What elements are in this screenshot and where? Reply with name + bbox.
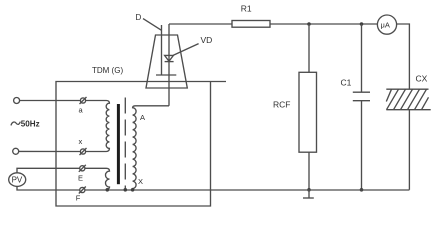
winding: excitation E-F (85, 168, 110, 190)
svg-text:C1: C1 (341, 78, 352, 88)
bushing D (porcelain housing) (146, 35, 187, 88)
node: junction C1 bottom on rail (360, 188, 364, 192)
wire: R1 to microammeter (270, 23, 377, 25)
svg-text:A: A (140, 113, 145, 122)
terminal a (80, 98, 85, 103)
terminal F (80, 187, 85, 192)
wire: RCF top lead (308, 24, 310, 72)
svg-text:TDM (G): TDM (G) (92, 66, 123, 75)
wire: bushing center conductor (168, 24, 170, 106)
capacitor C1 (353, 91, 370, 93)
transformer core (117, 104, 120, 184)
svg-text:PV: PV (12, 175, 23, 184)
diode VD (165, 55, 174, 61)
terminal x (80, 149, 85, 154)
microammeter PA1 (377, 15, 396, 34)
svg-text:CX: CX (416, 74, 428, 84)
terminal: AC input top (14, 98, 20, 104)
svg-text:RCF: RCF (273, 100, 290, 110)
wire: C1 bottom lead (361, 101, 363, 190)
ground (308, 190, 310, 198)
resistor RCF (299, 72, 317, 152)
wire: C1 top lead (361, 24, 363, 92)
svg-text:VD: VD (201, 35, 213, 45)
wire: leader from VD label (173, 44, 198, 56)
terminal: AC input bottom (13, 148, 19, 154)
svg-text:X: X (138, 177, 143, 186)
terminal E (80, 166, 85, 171)
node: junction at RCF top (307, 22, 311, 26)
voltmeter PV (9, 173, 26, 187)
capacitor CX test object (hatched) (386, 88, 428, 90)
label ~50Hz (11, 122, 20, 126)
svg-text:50Hz: 50Hz (21, 120, 40, 129)
wire: RCF bottom lead (308, 152, 310, 190)
transformer core screen (dashed) (124, 98, 126, 190)
wire: input top to terminal a (20, 100, 81, 102)
node: junction E winding bottom (106, 188, 110, 192)
svg-text:F: F (76, 193, 81, 202)
wire: PV bottom to rail (17, 186, 80, 190)
wire: microammeter to CX top (397, 24, 410, 89)
wire: top HV bus from bushing to R1 (169, 23, 232, 25)
svg-text:R1: R1 (241, 4, 252, 14)
winding: secondary A-X (133, 106, 169, 190)
svg-text:μA: μA (381, 21, 390, 30)
node: junction core to rail (124, 188, 128, 192)
transformer box TDM (56, 82, 226, 207)
resistor R1 (232, 21, 270, 28)
winding: primary a-x (86, 101, 110, 152)
wire: leader from D label (143, 19, 162, 31)
svg-text:a: a (79, 106, 84, 115)
svg-text:D: D (136, 13, 142, 22)
node: junction at C1 top (360, 22, 364, 26)
electrode: bushing inner conductor D (161, 25, 163, 75)
svg-text:E: E (78, 173, 83, 182)
wire: CX bottom lead (408, 110, 410, 190)
wire: input bottom to terminal x (19, 150, 81, 152)
wire: bottom ground rail (85, 189, 410, 191)
node: junction RCF bottom on rail (307, 188, 311, 192)
svg-text:x: x (79, 137, 83, 146)
node: junction X to rail (131, 188, 135, 192)
wire: PV top to terminal E (17, 168, 80, 173)
